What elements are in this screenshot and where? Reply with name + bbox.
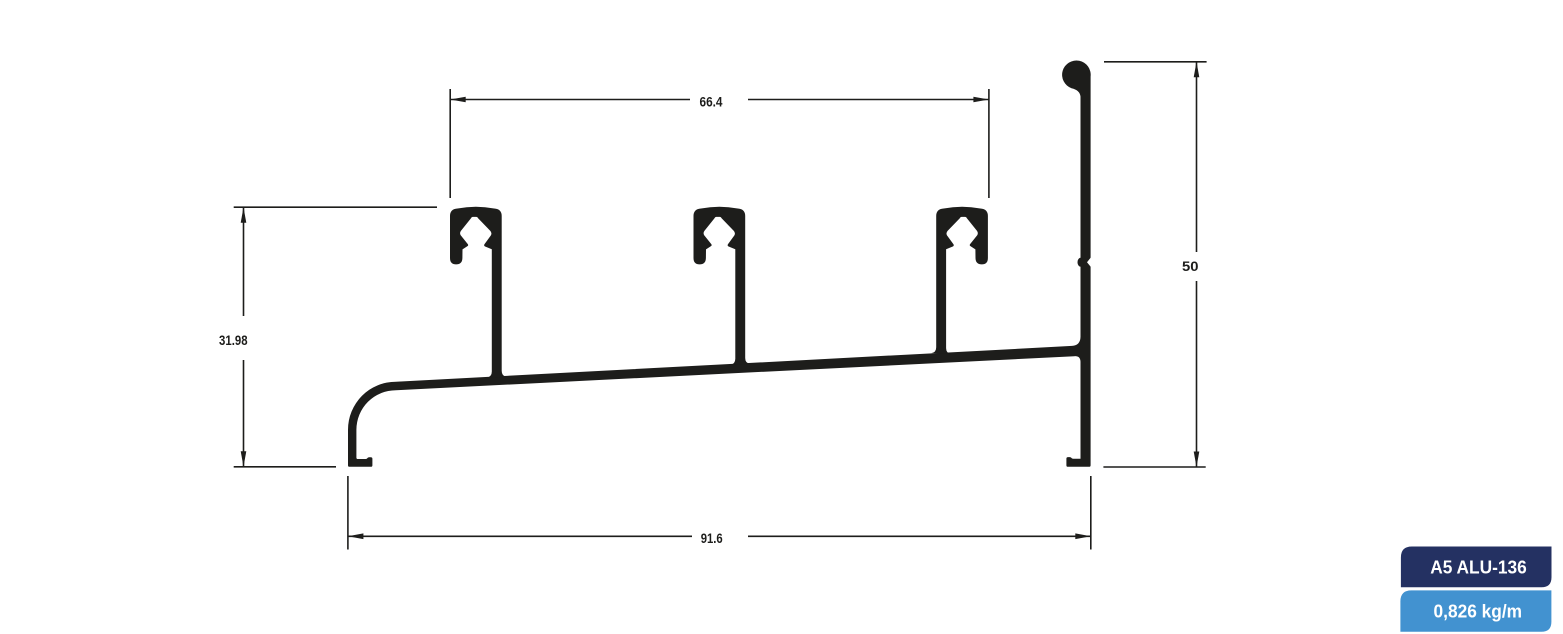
dim 31.98: bottom arrow [241, 451, 247, 467]
dim 91.6: left arrow [348, 533, 364, 539]
dim 50: top extension line [1104, 61, 1207, 63]
svg-text:0,826 kg/m: 0,826 kg/m [1434, 600, 1523, 621]
svg-text:A5 ALU-136: A5 ALU-136 [1430, 556, 1527, 577]
dim 66.4: right extension line [988, 89, 990, 198]
dim 31.98: dimension line lower segment [243, 360, 245, 467]
badge: weight 0,826 kg/m [1400, 590, 1551, 631]
dim 66.4: dimension line left segment [450, 99, 690, 101]
dim 91.6: right extension line [1090, 476, 1092, 550]
dim 31.98: bottom extension line [234, 466, 336, 468]
svg-text:66.4: 66.4 [700, 93, 723, 109]
dim 50: bottom arrow [1194, 452, 1200, 468]
dim 31.98: top arrow [241, 207, 247, 223]
svg-text:91.6: 91.6 [701, 530, 723, 546]
svg-text:50: 50 [1182, 258, 1199, 274]
badge: profile code A5 ALU-136 [1401, 547, 1552, 588]
dim 31.98: top extension line [234, 206, 437, 208]
hook channel 1 (left) [450, 207, 507, 378]
dim 66.4: right arrow [973, 97, 989, 103]
V-notch on right side of right bar [1087, 257, 1091, 268]
dim 66.4: dimension line right segment [748, 99, 989, 101]
svg-text:31.98: 31.98 [219, 332, 248, 348]
dim 91.6: right arrow [1075, 533, 1091, 539]
dim 50: bottom extension line [1103, 466, 1205, 468]
profile body: base web, left curve, right bar, feet [348, 60, 1091, 466]
dim 31.98: dimension line upper segment [243, 207, 245, 316]
dim 50: top arrow [1194, 62, 1200, 78]
bead bump on left side of right bar [1078, 258, 1085, 267]
dim 91.6: left extension line [347, 476, 349, 550]
dim 91.6: dimension line right segment [748, 535, 1091, 537]
dim 50: dimension line lower segment [1196, 281, 1198, 467]
hook channel 2 (middle) [694, 207, 751, 365]
dim 66.4: left extension line [449, 89, 451, 198]
hook channel 3 (right, mirrored) [931, 207, 988, 354]
dim 91.6: dimension line left segment [348, 535, 692, 537]
dim 66.4: left arrow [450, 97, 466, 103]
dim 50: dimension line upper segment [1196, 62, 1198, 252]
